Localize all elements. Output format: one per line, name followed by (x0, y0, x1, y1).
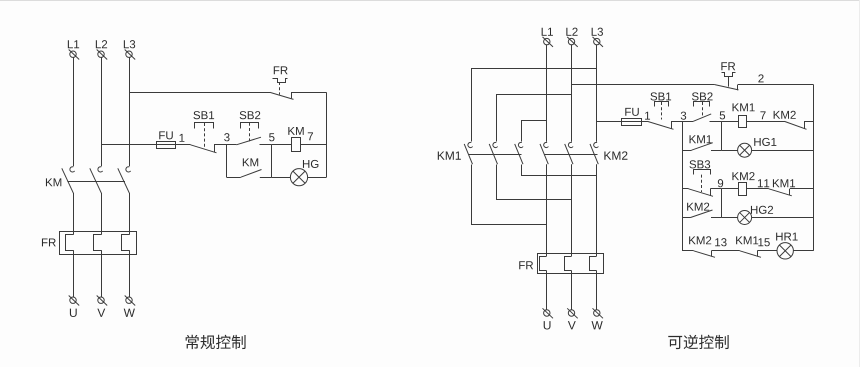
wire KM1 interlock to rail (790, 188, 814, 190)
wire KM2 to KM1 (row F) (711, 250, 739, 252)
FR actuator symbol (273, 79, 288, 83)
label node 5 (right) (720, 111, 725, 119)
SB3 button cap (694, 170, 711, 175)
SB1 button cap (right) (655, 102, 669, 107)
contactor KM main contact pole 1 (62, 167, 75, 193)
contactor KM2 main contact pole 1 (540, 142, 548, 164)
pole1 output wire (472, 165, 547, 225)
wire KM1 aux to node5 (711, 150, 722, 152)
KM2 auxiliary NO contact (691, 210, 713, 218)
terminal L1 (left) (68, 40, 79, 59)
crossover wire pole3 to L1 (522, 121, 547, 142)
wire node3 to KM2 NC (row F) (682, 250, 694, 252)
wire node3 to SB2 (right) (682, 121, 693, 123)
wire pole5 to FR (right) (571, 164, 573, 256)
wire FR contact to rail (right) (738, 84, 814, 86)
label KM1 (coil) (733, 103, 755, 111)
wire to FR (73, 193, 75, 235)
label node 7 (left) (308, 132, 313, 140)
terminal V (left) (97, 296, 108, 317)
wire lamp HG to rail (308, 177, 327, 179)
wire node5 to lamp HG1 (722, 150, 738, 152)
label SB2 (right) (692, 92, 713, 100)
FR actuator link (right) (728, 76, 730, 87)
label HG2 (751, 206, 773, 214)
contactor KM1 main contact pole 3 (515, 142, 523, 164)
label KM (coil) (288, 127, 303, 135)
wire lamp HG1 to rail (752, 150, 814, 152)
wire L3 down (right) (596, 45, 598, 142)
FR actuator symbol (right) (722, 73, 736, 77)
contactor coil KM1 (739, 116, 747, 128)
wire coil KM2 to KM1 interlock (746, 188, 768, 190)
label FU (right) (625, 108, 638, 116)
wire node3 to KM1 aux (682, 150, 692, 152)
SB2 dashed actuator (right) (702, 102, 704, 117)
wire SB2 to node 5 (260, 144, 272, 146)
wire L2 down (101, 57, 103, 166)
wire FR to terminal (101, 250, 103, 297)
label node 3 (right) (681, 112, 686, 120)
label node 1 (left) (179, 134, 184, 142)
wire to FR (129, 193, 131, 235)
label KM2 (coil) (732, 172, 754, 180)
FR heater element 3 (right) (590, 257, 597, 271)
label node 9 (718, 179, 723, 187)
node 5 drop wire (right) (721, 121, 723, 150)
contactor KM1 main contact pole 2 (489, 142, 497, 164)
wire lamp HR1 to rail (793, 250, 813, 252)
fuse FU (right) (622, 119, 642, 126)
wire pole4 to FR (right) (546, 164, 548, 256)
wire coil to rail (300, 144, 327, 146)
caption 常规控制 (186, 335, 246, 349)
wire SB1 to node 3 (right) (671, 121, 682, 123)
wire L1 down (right) (546, 45, 548, 142)
contactor KM2 main contact pole 2 (565, 142, 573, 164)
wire to FR (101, 193, 103, 235)
FR heater element 1 (66, 235, 74, 251)
terminal U (right) (543, 308, 554, 329)
label KM2 (aux contact) (687, 203, 709, 211)
KM1 auxiliary NO contact (692, 143, 713, 151)
wire KM2 interlock to rail (804, 121, 814, 123)
wire SB3 to node 9 (710, 188, 721, 190)
KM1 NC contact (row F) (740, 251, 761, 257)
wire node3 to SB2 (227, 144, 237, 146)
contactor KM main contact pole 2 (90, 167, 103, 193)
wire top control row (129, 92, 270, 94)
contactor KM main contact pole 3 (118, 167, 131, 193)
wire L2 to SB1 row (101, 144, 191, 146)
wire lamp HG2 to rail (752, 217, 814, 219)
pushbutton SB2 NO contact (236, 137, 261, 145)
node 9 drop wire (721, 189, 723, 218)
terminal L3 (left) (124, 40, 135, 59)
label KM1 (row F) (736, 236, 758, 244)
label FR (right) (519, 261, 533, 269)
label KM1 (aux contact) (690, 135, 712, 143)
KM2 NC interlock contact (785, 121, 807, 129)
wire pole6 to FR (right) (596, 164, 598, 256)
SB1 dashed actuator (right) (661, 102, 663, 120)
label node 7 (right) (760, 111, 765, 119)
label node 5 (left) (269, 133, 274, 141)
wire L3 to fuse row (597, 121, 648, 123)
wire node3 to KM aux (227, 177, 241, 179)
wire node3 to SB3 (682, 188, 689, 190)
wire FR to terminal (73, 250, 75, 297)
wire top control row (right) (572, 84, 715, 86)
terminal L3 (right) (592, 28, 603, 47)
KM2 linkage bar (544, 154, 598, 156)
label HG1 (754, 138, 776, 146)
label FR (control) (274, 66, 288, 74)
label SB1 (right) (650, 92, 671, 100)
SB2 button cap (right) (694, 102, 710, 107)
FR heater element 2 (right) (565, 257, 572, 271)
label KM1 (main contacts) (438, 151, 461, 159)
wire SB1 to node 3 (214, 144, 227, 146)
wire node9 to lamp HG2 (721, 217, 737, 219)
right rail (right control) (813, 85, 815, 251)
label SB2 (left) (240, 111, 261, 119)
contactor KM1 main contact pole 1 (464, 142, 472, 164)
label FR (right control) (721, 62, 735, 70)
caption 可逆控制 (668, 335, 728, 349)
wire FR to terminal (right) (596, 271, 598, 310)
label KM (aux contact) (243, 158, 258, 166)
label node 1 (right) (645, 112, 650, 120)
terminal V (right) (567, 308, 578, 329)
KM1 NC interlock contact (769, 189, 792, 196)
FR heater element 3 (122, 235, 130, 251)
pole3 output wire (522, 165, 597, 176)
crossover wire pole2 to L2 (497, 95, 572, 142)
label KM1 (interlock row D) (773, 179, 795, 187)
wire node5 to coil KM1 (722, 121, 739, 123)
wire node3 to KM2 aux (682, 217, 691, 219)
contactor coil KM2 (739, 183, 747, 196)
KM1 linkage bar (468, 154, 521, 156)
KM2 NC contact (row F) (694, 251, 715, 257)
terminal L2 (left) (96, 40, 107, 59)
label node 2 (758, 74, 763, 82)
label node 3 (left) (224, 133, 229, 141)
SB1 dashed actuator (204, 123, 206, 148)
label KM2 (main contacts) (604, 151, 627, 159)
SB2 dashed actuator (249, 123, 251, 142)
FR heater element 1 (right) (540, 257, 547, 271)
fuse FU (left) (157, 142, 176, 149)
wire KM aux to node5 (260, 177, 272, 179)
terminal U (left) (69, 296, 80, 318)
FR NC contact (right control) (715, 85, 739, 91)
label KM2 (row F) (689, 236, 711, 244)
pushbutton SB3 NC contact (689, 189, 714, 197)
pole2 output wire (497, 165, 572, 200)
label node 15 (758, 238, 769, 246)
wire FR contact to rail (291, 92, 327, 94)
contactor coil KM (292, 138, 301, 152)
pushbutton SB1 NC contact (191, 145, 217, 153)
FR actuator dashed link (279, 82, 281, 95)
wire KM2 aux to node9 (711, 217, 721, 219)
FR heater element 2 (94, 235, 102, 251)
wire node5 to lamp HG (271, 177, 290, 179)
label SB1 (left) (193, 111, 214, 119)
wire L2 down (right) (571, 45, 573, 142)
wire L3 down (129, 57, 131, 166)
wire SB2 to node 5 (right) (710, 121, 722, 123)
label KM2 (interlock row B) (774, 111, 796, 119)
pushbutton SB1 NC contact (right) (648, 121, 674, 129)
wire FR to terminal (right) (546, 271, 548, 310)
wire node5 to coil (271, 144, 291, 146)
SB3 dashed actuator (701, 175, 703, 192)
KM auxiliary NO contact (241, 170, 262, 178)
indicator lamp HG2 (738, 211, 752, 225)
thermal relay FR box (60, 232, 137, 255)
thermal relay FR box (right) (538, 254, 604, 274)
indicator lamp HG (290, 169, 307, 186)
wire coil KM1 to KM2 interlock (747, 121, 785, 123)
label FU (left) (159, 131, 172, 139)
wire L1 down (73, 57, 75, 166)
indicator lamp HR1 (777, 243, 793, 259)
label SB3 (689, 160, 710, 168)
terminal W (left) (124, 296, 136, 317)
label KM (main contacts) (46, 178, 61, 186)
node 3 bus wire (682, 121, 684, 250)
terminal W (right) (591, 308, 603, 329)
wire node9 to coil KM2 (721, 188, 739, 190)
SB2 button cap (241, 123, 259, 129)
node 5 drop wire (271, 145, 273, 177)
crossover wire pole1 to L3 (472, 69, 597, 142)
FR NC contact (left control) (270, 92, 294, 99)
label FR (left) (42, 238, 56, 246)
label node 13 (715, 238, 726, 246)
wire FR to terminal (right) (571, 271, 573, 310)
indicator lamp HG1 (738, 143, 752, 157)
wire KM1 to lamp HR1 (757, 250, 777, 252)
KM linkage bar (67, 181, 125, 183)
right rail (left control) (326, 92, 328, 177)
label HR1 (776, 233, 798, 241)
terminal L2 (right) (566, 28, 577, 47)
label HG (303, 160, 318, 168)
terminal L1 (right) (542, 28, 553, 47)
label node 11 (758, 179, 769, 187)
contactor KM2 main contact pole 3 (590, 142, 598, 164)
pushbutton SB2 NO contact (right) (693, 114, 711, 122)
SB1 button cap (195, 123, 214, 129)
node 3 drop wire (226, 145, 228, 177)
wire FR to terminal (129, 250, 131, 297)
